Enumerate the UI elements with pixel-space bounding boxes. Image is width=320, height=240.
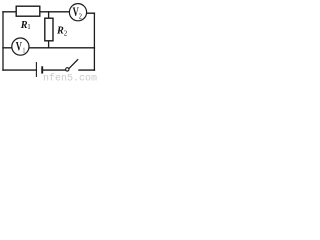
svg-text:nfen5.com: nfen5.com [43, 73, 97, 82]
svg-text:2: 2 [79, 12, 82, 21]
svg-text:R: R [56, 26, 64, 37]
svg-text:1: 1 [23, 46, 26, 55]
svg-text:V: V [16, 40, 22, 54]
svg-text:2: 2 [64, 30, 68, 38]
svg-text:1: 1 [27, 23, 31, 31]
